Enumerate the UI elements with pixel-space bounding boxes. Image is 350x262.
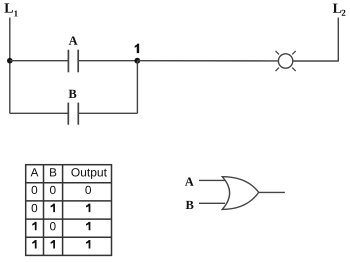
wire riser from B branch up to node 1 (136, 61, 138, 114)
label A (contact A) (69, 36, 78, 44)
wire from left rail to contact A (10, 60, 69, 62)
wire B branch bottom left (10, 112, 69, 114)
wire OR gate output (259, 191, 285, 193)
truth table row divider 4 (26, 236, 112, 238)
label node 1 (135, 44, 140, 54)
label L1 (4, 3, 17, 16)
truth table row 1 0 1 (32, 222, 90, 231)
OR gate U1 body (222, 177, 258, 210)
junction dot on left rail (7, 58, 13, 64)
truth table row divider 1 (26, 182, 112, 184)
truth table column divider A|B (43, 165, 45, 256)
label A (OR gate input A) (185, 178, 194, 186)
wire from contact A to node 1 (78, 60, 137, 62)
lamp rays (276, 51, 296, 71)
node 1 junction dot (134, 58, 140, 64)
wire from contact B to riser (78, 112, 137, 114)
truth table column divider B|Output (62, 165, 64, 256)
wire OR gate input B (199, 202, 225, 204)
truth table outer frame (26, 165, 112, 256)
truth table row divider 3 (26, 218, 112, 220)
contact A (normally-open) (68, 50, 78, 73)
wire from lamp to right rail (293, 60, 339, 62)
label B (contact B) (69, 90, 77, 98)
contact B (normally-open) (68, 103, 78, 125)
truth table row divider 2 (26, 200, 112, 202)
truth table row 1 1 1 (32, 240, 90, 248)
truth table row 0 0 0 (32, 186, 91, 194)
label B (OR gate input B) (186, 201, 194, 209)
power rail L1 (left vertical rail) (9, 18, 11, 114)
label L2 (333, 4, 346, 16)
power rail L2 (right vertical rail) (337, 18, 339, 62)
truth table row 0 1 1 (32, 204, 91, 213)
lamp (output coil) (278, 54, 292, 68)
wire from node 1 to lamp (137, 60, 278, 62)
truth table header A B Output (31, 168, 107, 179)
wire OR gate input A (199, 179, 225, 181)
